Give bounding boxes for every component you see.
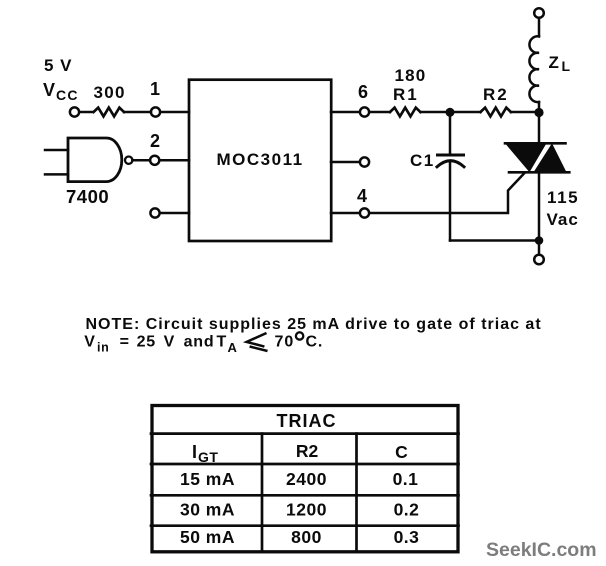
resistor R1 180 bbox=[390, 108, 420, 117]
svg-text:Vac: Vac bbox=[547, 210, 579, 229]
node pin 1 bbox=[151, 107, 160, 116]
wire pin 4 bbox=[331, 212, 360, 215]
svg-text:115: 115 bbox=[547, 188, 579, 207]
degree symbol bbox=[296, 332, 303, 339]
wire bbox=[124, 111, 151, 114]
wire bbox=[160, 159, 189, 162]
svg-text:1200: 1200 bbox=[286, 500, 327, 520]
wire bbox=[538, 112, 541, 143]
terminal top bbox=[534, 8, 544, 18]
svg-text:C.: C. bbox=[306, 334, 324, 351]
svg-text:R2: R2 bbox=[483, 85, 509, 104]
terminal bottom bbox=[534, 255, 544, 265]
wire bbox=[449, 112, 452, 154]
note text line 2 bbox=[84, 334, 323, 356]
svg-text:and: and bbox=[184, 334, 215, 351]
node pin 3 bbox=[150, 208, 159, 217]
wire bbox=[161, 111, 190, 114]
wire bbox=[370, 111, 391, 114]
node pin 6 bbox=[360, 107, 369, 116]
capacitor C1 bbox=[437, 155, 464, 167]
svg-text:SeekIC.com: SeekIC.com bbox=[486, 539, 597, 561]
svg-text:in: in bbox=[97, 341, 109, 355]
svg-text:V: V bbox=[43, 80, 55, 100]
svg-text:NOTE: Circuit supplies 25 mA d: NOTE: Circuit supplies 25 mA drive to ga… bbox=[86, 316, 542, 333]
inductor ZL bbox=[529, 36, 539, 102]
wire input 2 bbox=[45, 173, 68, 176]
svg-text:R1: R1 bbox=[393, 85, 419, 104]
svg-text:V: V bbox=[84, 334, 95, 351]
less-than-or-equal symbol bbox=[247, 333, 268, 351]
svg-text:I: I bbox=[192, 442, 197, 462]
svg-text:R2: R2 bbox=[296, 441, 319, 461]
svg-text:25: 25 bbox=[137, 334, 156, 351]
inverter bubble bbox=[125, 157, 132, 164]
svg-text:5 V: 5 V bbox=[44, 56, 73, 75]
node pin 4 bbox=[360, 208, 369, 217]
svg-text:TRIAC: TRIAC bbox=[277, 411, 337, 431]
triac lower triangle bbox=[534, 143, 567, 172]
svg-text:7400: 7400 bbox=[66, 186, 109, 207]
terminal VCC bbox=[70, 107, 79, 116]
gate wire bbox=[370, 174, 525, 214]
svg-text:50 mA: 50 mA bbox=[180, 527, 235, 547]
svg-text:15 mA: 15 mA bbox=[180, 469, 235, 489]
wire bbox=[449, 162, 452, 241]
svg-text:C1: C1 bbox=[410, 151, 435, 170]
svg-text:0.3: 0.3 bbox=[394, 527, 420, 547]
wire bbox=[538, 241, 541, 255]
node pin 2 bbox=[150, 156, 159, 165]
table TRIAC bbox=[151, 406, 459, 552]
svg-text:6: 6 bbox=[358, 82, 368, 102]
svg-text:Z: Z bbox=[549, 53, 559, 72]
svg-text:0.1: 0.1 bbox=[393, 469, 419, 489]
svg-text:A: A bbox=[228, 340, 238, 355]
svg-text:2400: 2400 bbox=[286, 469, 327, 489]
svg-text:4: 4 bbox=[357, 186, 367, 206]
junction node C bbox=[535, 236, 544, 245]
wire pin 6 bbox=[331, 111, 360, 114]
svg-text:V: V bbox=[164, 334, 175, 351]
svg-text:CC: CC bbox=[56, 87, 79, 103]
table header IGT bbox=[192, 442, 218, 465]
wire pin 5 bbox=[331, 161, 360, 164]
label ZL bbox=[549, 53, 571, 74]
wire bottom bbox=[450, 239, 539, 242]
triac upper triangle bbox=[505, 143, 547, 172]
label VCC bbox=[43, 80, 79, 103]
svg-text:2: 2 bbox=[150, 131, 160, 151]
svg-text:300: 300 bbox=[94, 83, 126, 102]
junction node A bbox=[446, 108, 455, 117]
svg-text:30 mA: 30 mA bbox=[180, 500, 235, 520]
wire bbox=[132, 159, 150, 162]
svg-text:800: 800 bbox=[291, 527, 322, 547]
wire bbox=[80, 111, 94, 114]
junction node B bbox=[534, 108, 543, 117]
resistor R2 bbox=[481, 108, 511, 117]
svg-text:MOC3011: MOC3011 bbox=[217, 150, 304, 169]
resistor 300 bbox=[94, 108, 124, 117]
svg-text:1: 1 bbox=[150, 79, 160, 99]
svg-text:T: T bbox=[217, 334, 227, 351]
IC U1 MOC3011 bbox=[189, 80, 331, 241]
wire bbox=[160, 212, 189, 215]
triac MT1 bar bbox=[509, 171, 569, 174]
svg-text:0.2: 0.2 bbox=[394, 500, 420, 520]
svg-text:GT: GT bbox=[198, 449, 218, 465]
wire main terminal bbox=[538, 172, 541, 240]
NAND gate 7400 bbox=[68, 138, 122, 182]
wire bbox=[538, 18, 541, 36]
svg-text:180: 180 bbox=[395, 66, 427, 85]
wire bbox=[511, 111, 539, 114]
wire bbox=[538, 102, 541, 112]
wire bbox=[420, 111, 450, 114]
svg-text:C: C bbox=[395, 442, 408, 462]
triac MT2 bar bbox=[505, 142, 566, 145]
svg-text:70: 70 bbox=[275, 334, 295, 351]
wire input 1 bbox=[45, 149, 68, 152]
node pin 5 bbox=[360, 157, 369, 166]
svg-text:=: = bbox=[120, 334, 129, 351]
wire bbox=[450, 111, 481, 114]
svg-text:L: L bbox=[562, 58, 571, 74]
